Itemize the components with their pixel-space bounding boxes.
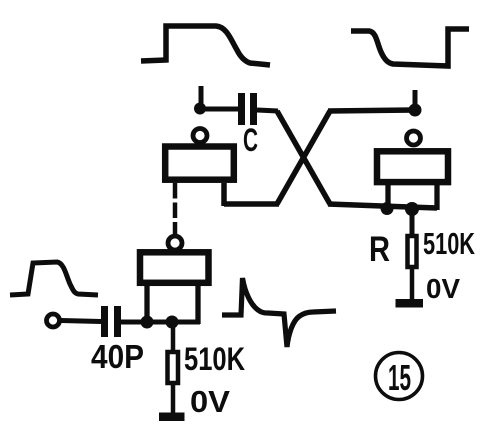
- svg-text:510K: 510K: [184, 341, 245, 377]
- svg-text:510K: 510K: [423, 226, 475, 261]
- svg-text:0V: 0V: [190, 384, 230, 419]
- svg-text:40P: 40P: [91, 338, 144, 375]
- svg-text:0V: 0V: [426, 273, 460, 304]
- svg-text:R: R: [369, 230, 390, 269]
- svg-text:15: 15: [388, 357, 411, 398]
- svg-text:C: C: [243, 122, 258, 158]
